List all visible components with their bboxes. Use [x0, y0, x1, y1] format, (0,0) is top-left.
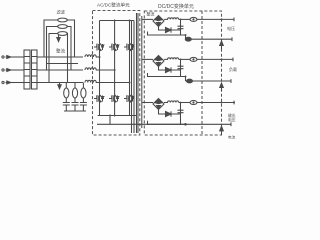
minus wire module1 — [186, 38, 233, 40]
wire row1 — [37, 56, 83, 58]
module 1 input wire — [142, 18, 153, 20]
module 3 input wire — [142, 102, 153, 104]
IGBT Q3 — [124, 44, 134, 51]
wire phase A to leg1 — [96, 56, 100, 58]
snubber bottom bus — [64, 110, 86, 112]
svg-text:整流: 整流 — [147, 11, 155, 17]
module 2 freewheel diode — [159, 67, 181, 71]
terminal minus3 — [230, 122, 232, 126]
IGBT Q6 — [124, 95, 134, 102]
leg 2 — [114, 21, 116, 116]
transformer T2 core — [137, 13, 139, 133]
snubber branch 1 capacitor — [63, 103, 70, 112]
module 1 sensor — [190, 17, 197, 21]
svg-text:AC/DC整流单元: AC/DC整流单元 — [97, 2, 130, 9]
module 2 input wire — [142, 58, 153, 60]
wire phase A — [11, 56, 24, 58]
filter loop 3 — [49, 34, 68, 83]
snubber branch 2 capacitor — [72, 103, 79, 112]
node bus row2 — [221, 58, 223, 60]
leg 3 — [129, 21, 131, 116]
svg-text:滤波: 滤波 — [57, 9, 66, 16]
arrow phase A — [6, 56, 12, 58]
snubber branch 3 capacitor — [80, 103, 87, 112]
transformer T2 primary line 2 — [133, 21, 135, 134]
svg-text:电流: 电流 — [228, 135, 236, 140]
terminal minus1 — [231, 37, 233, 41]
stub bus to return — [109, 116, 111, 125]
svg-text:电压: 电压 — [227, 25, 235, 31]
node bus row3 — [221, 102, 223, 104]
wire box bottom — [46, 63, 78, 65]
module 2 bottom rail — [148, 73, 186, 77]
module 3 capacitor — [178, 103, 184, 125]
arrow down at snubber — [59, 83, 61, 86]
module 3 bottom rail — [148, 121, 186, 125]
terminal phase A — [2, 56, 4, 58]
module 3 wire to bus — [197, 102, 235, 104]
module 1 output wire — [179, 18, 190, 20]
svg-text:整流: 整流 — [56, 48, 65, 55]
module 1 capacitor — [178, 19, 184, 35]
snubber branch 3 resistor — [82, 83, 84, 89]
module 1 wire to bus — [197, 18, 235, 20]
dc bottom bus — [98, 115, 137, 117]
arrow phase B — [6, 69, 12, 71]
IGBT Q2 — [109, 44, 119, 51]
wire phase C — [11, 82, 24, 84]
bus arrow 2 — [221, 86, 223, 92]
module 2 output wire — [179, 58, 190, 60]
filter loop 2 — [47, 27, 72, 71]
module 1 filter inductor — [164, 18, 179, 20]
module 2 capacitor — [178, 59, 184, 76]
svg-text:电压: 电压 — [228, 117, 236, 122]
leg 1 — [99, 21, 101, 116]
module 3 sensor — [190, 101, 197, 105]
transformer T1 secondary windings — [32, 50, 38, 89]
minus wire module2 stub — [185, 77, 187, 82]
IGBT Q4 — [94, 95, 104, 102]
svg-text:输出: 输出 — [228, 113, 236, 118]
minus wire module3 — [186, 123, 232, 125]
snubber branch 1 resistor — [65, 83, 67, 89]
return wire bottom — [97, 123, 186, 125]
filter loop 1 — [44, 20, 75, 57]
wire row2 — [37, 69, 83, 71]
module 2 wire to bus — [197, 58, 233, 60]
module 2 filter inductor — [164, 58, 179, 60]
bus arrow 1 — [221, 44, 223, 50]
dashed box unit1 — [93, 11, 140, 136]
minus wire module1 stub — [185, 35, 187, 39]
IGBT Q1 — [94, 44, 104, 51]
transformer T1 primary windings — [24, 50, 30, 89]
bridge rectifier B1 — [153, 16, 164, 27]
bridge rectifier B2 — [153, 56, 164, 67]
dc top bus — [100, 20, 135, 22]
shunt sensor module2 — [187, 79, 193, 83]
module 1 bottom rail — [148, 32, 186, 36]
dashed divider — [201, 11, 203, 135]
wire row3 — [37, 82, 83, 84]
inductor L3 — [85, 80, 96, 82]
wire phase B to leg2 — [96, 69, 115, 71]
node leg2 top — [114, 20, 116, 22]
bridge rectifier B3 — [153, 99, 164, 110]
snubber branch 2 resistor — [74, 83, 76, 89]
terminal phase B — [2, 69, 4, 71]
node leg3 top — [129, 20, 131, 22]
arrow down inside box — [58, 35, 60, 39]
module 3 output wire — [179, 102, 190, 104]
node bus row1 — [221, 18, 223, 20]
svg-text:负载: 负载 — [229, 66, 237, 72]
fuse F3 — [58, 32, 68, 36]
terminal phase C — [2, 81, 4, 83]
dashed box unit2 — [144, 11, 221, 135]
terminal plus2 — [232, 58, 234, 62]
module 2 sensor — [190, 57, 197, 61]
module 1 freewheel diode — [159, 27, 181, 31]
fuse F2 — [58, 25, 68, 29]
terminal plus1 — [233, 18, 235, 22]
minus wire module2 — [186, 80, 232, 82]
IGBT Q5 — [109, 95, 119, 102]
module 3 filter inductor — [164, 101, 179, 103]
wire phase C to leg3 — [96, 82, 130, 84]
arrow phase C — [6, 82, 12, 84]
node minus3 — [184, 123, 187, 126]
bus arrow 3 — [221, 129, 223, 135]
inductor L2 — [85, 68, 96, 70]
inductor L1 — [85, 55, 96, 57]
fuse F1 — [58, 18, 68, 22]
module 3 freewheel diode — [159, 110, 181, 115]
transformer T2 primary line 1 — [131, 21, 133, 134]
shunt sensor module1 — [185, 37, 191, 41]
transformer T2 secondary line — [141, 16, 143, 128]
wire phase B — [11, 69, 24, 71]
terminal plus3 — [233, 101, 235, 105]
terminal minus2 — [230, 79, 232, 83]
svg-text:DC/DC变换单元: DC/DC变换单元 — [158, 3, 194, 10]
